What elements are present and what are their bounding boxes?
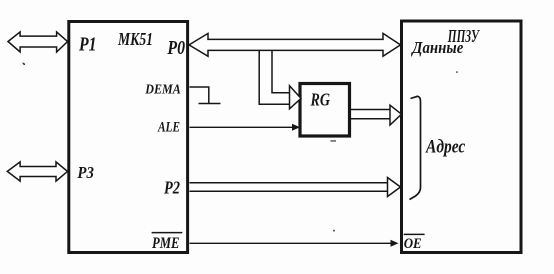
overline of PME xyxy=(152,232,183,234)
svg-text:P3: P3 xyxy=(77,163,95,182)
address bus P2 to ППЗУ (lower line) xyxy=(190,190,388,192)
block MK51 (МК51 microcontroller) xyxy=(69,22,188,253)
address bus RG to ППЗУ (upper line) xyxy=(351,109,391,111)
scan dot above PME wire xyxy=(333,230,335,232)
svg-text:P2: P2 xyxy=(163,178,180,198)
open arrowhead into ППЗУ address xyxy=(390,105,402,125)
svg-text:RG: RG xyxy=(310,90,330,110)
bidirectional data bus P0 to Данные xyxy=(189,33,401,56)
wire ALE to RG xyxy=(190,126,294,128)
scan dash under RG xyxy=(331,140,337,141)
address group bracket inside ППЗУ xyxy=(410,96,421,199)
wire: bus branch from data bus down to RG (left line) xyxy=(259,50,290,104)
filled arrowhead PME into OE xyxy=(391,240,399,247)
block PPZU (ППЗУ memory) xyxy=(402,21,522,253)
bidirectional bus arrow at P1 xyxy=(8,32,68,52)
svg-text:PME: PME xyxy=(151,234,179,252)
svg-text:P1: P1 xyxy=(78,34,96,55)
wire PME to OE xyxy=(190,242,392,244)
open arrowhead into RG xyxy=(290,86,302,109)
bidirectional bus arrow at P3 xyxy=(7,162,67,181)
address bus RG to ППЗУ (lower line) xyxy=(351,118,391,120)
svg-text:DEMA: DEMA xyxy=(144,82,180,97)
DEMA termination symbol xyxy=(190,87,209,104)
svg-text:Адрес: Адрес xyxy=(425,137,466,158)
scan dot inside ППЗУ xyxy=(456,71,458,73)
overline of OE xyxy=(404,233,425,235)
address bus P2 to ППЗУ (upper line) xyxy=(190,182,388,184)
svg-text:OE: OE xyxy=(404,236,422,252)
filled arrowhead ALE into RG xyxy=(292,124,300,131)
svg-text:P0: P0 xyxy=(167,38,186,59)
svg-text:МК51: МК51 xyxy=(117,29,153,49)
svg-text:Данные: Данные xyxy=(410,38,463,57)
wire: bus branch from data bus down to RG (right line) xyxy=(272,50,290,92)
open arrowhead P2 bus into ППЗУ xyxy=(388,178,401,197)
svg-text:ALE: ALE xyxy=(157,120,180,136)
block RG (register) xyxy=(300,84,350,137)
scan speck near P1 arrow xyxy=(23,63,26,66)
